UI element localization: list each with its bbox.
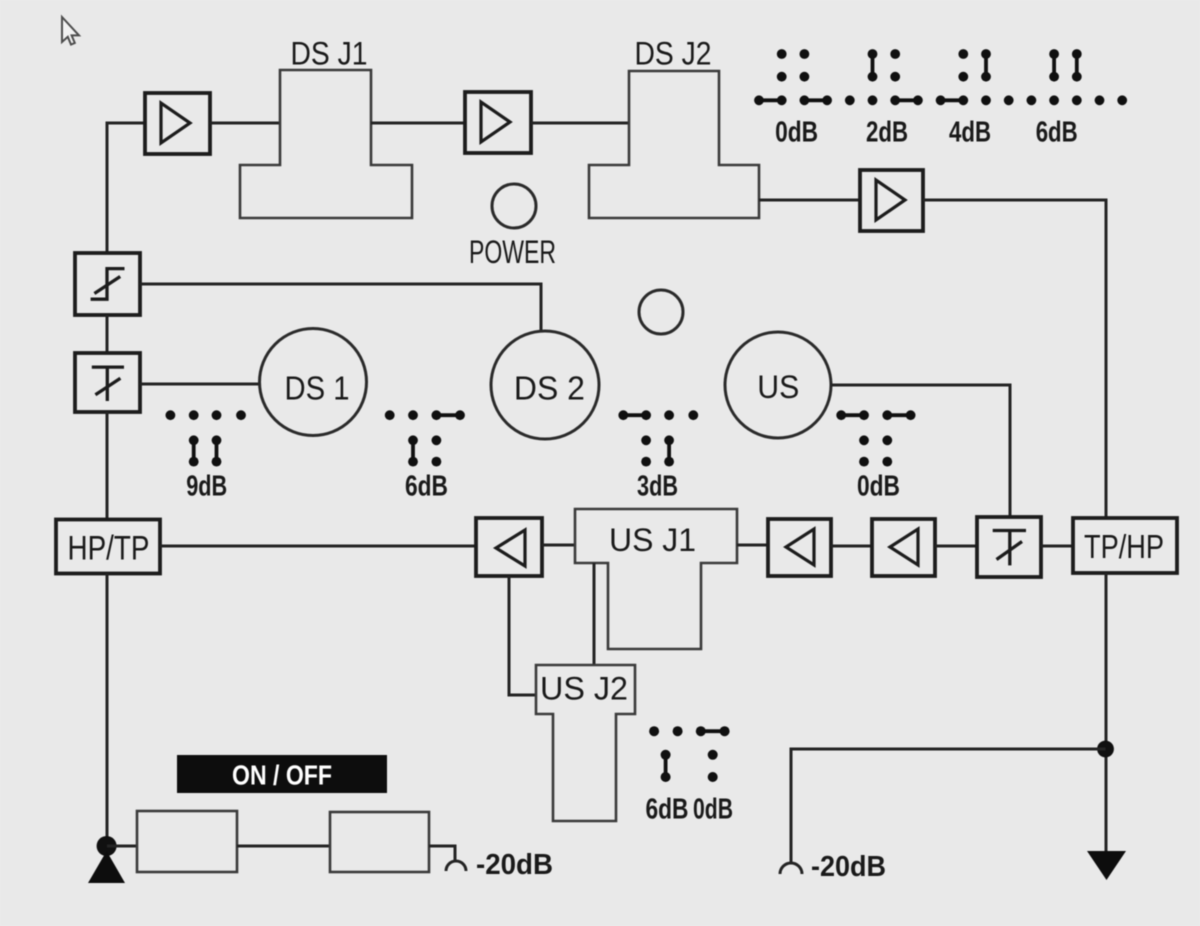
connector DS J2 [589, 71, 759, 218]
amplifier A1 [145, 93, 210, 154]
wire US pot to EQ4 [831, 385, 1010, 517]
svg-text:HP/TP: HP/TP [68, 530, 150, 568]
jumper group 6dB pins [1049, 49, 1082, 82]
wire A2 to DS J2 [531, 122, 629, 125]
svg-text:0dB: 0dB [857, 471, 900, 503]
input port arrow [88, 851, 125, 883]
amplifier A4 [476, 518, 542, 576]
jumper links 9dB [194, 440, 217, 461]
wire EQ1 to DS2 pot [140, 284, 541, 331]
screw hole [639, 290, 683, 334]
switch TP/HP [1073, 518, 1177, 573]
wire US J1 down to US J2 [593, 563, 596, 665]
wire A6 to EQ4 [935, 545, 977, 548]
jumper group 3dB pins [618, 410, 698, 466]
svg-text:4dB: 4dB [949, 117, 991, 149]
amplifier A6 [872, 519, 935, 576]
switch HP/TP [56, 520, 160, 574]
wire A3 to right rail [923, 200, 1106, 518]
svg-text:6dB: 6dB [646, 794, 689, 826]
wire F2 to test point TP1 [429, 846, 455, 861]
test point TP2 [780, 863, 802, 874]
svg-text:DS J1: DS J1 [291, 36, 368, 72]
wire F1 to F2 [237, 845, 330, 848]
jumper group 6dB mid pins [385, 410, 465, 466]
jumper links 0dB [759, 98, 827, 102]
jumper group 2dB pins [868, 49, 901, 82]
jumper links 6dB mid [413, 415, 460, 461]
svg-text:US: US [757, 369, 799, 405]
wire DS J2 to amp A3 [759, 199, 860, 202]
svg-text:6dB: 6dB [405, 471, 448, 503]
jumper links 0dB mid [841, 413, 910, 417]
svg-text:US J2: US J2 [540, 671, 628, 707]
wire US J1 to amp A5 [737, 544, 768, 547]
wire A1 to DS J1 [210, 122, 280, 125]
jumper links 6dB [1054, 54, 1077, 77]
node input junction [97, 836, 117, 856]
connector US J1 [575, 509, 737, 649]
potentiometer US [725, 332, 831, 438]
wire EQ2 to DS1 pot [140, 383, 260, 386]
svg-text:-20dB: -20dB [476, 849, 553, 881]
equalizer EQ1 [75, 253, 140, 315]
svg-text:9dB: 9dB [186, 471, 227, 503]
svg-text:US J1: US J1 [609, 522, 696, 558]
svg-text:ON / OFF: ON / OFF [232, 760, 332, 791]
jumper field top-right: bottom pin row [754, 95, 1127, 105]
jumper group 0dB mid pins [836, 410, 915, 466]
wire HP/TP to amp A4 [160, 545, 476, 548]
svg-text:POWER: POWER [469, 234, 556, 270]
equalizer EQ4 [977, 517, 1041, 577]
wire A5 to A6 [831, 545, 872, 548]
jumper group 4dB pins [958, 49, 991, 82]
fuse F2 [330, 812, 429, 872]
svg-text:0dB: 0dB [693, 794, 733, 826]
svg-text:2dB: 2dB [866, 117, 908, 149]
LED POWER [492, 184, 536, 228]
test point TP1 [446, 861, 466, 871]
jumper group US J2 pins [649, 726, 730, 782]
connector US J2 [536, 665, 635, 821]
potentiometer DS 2 [491, 331, 599, 439]
wire node to test point TP2 [791, 749, 1106, 863]
wire EQ1 to EQ2 [106, 315, 109, 353]
svg-text:6dB: 6dB [1036, 117, 1078, 149]
wire A4 down to US J2 [509, 576, 536, 695]
wire input corner to amp A1 [107, 123, 145, 253]
equalizer EQ2 [75, 353, 140, 412]
amplifier A5 [768, 519, 831, 576]
svg-text:0dB: 0dB [775, 117, 818, 149]
label ON / OFF plate [177, 755, 387, 793]
connector DS J1 [240, 70, 412, 218]
svg-text:3dB: 3dB [637, 471, 678, 503]
svg-text:DS 1: DS 1 [285, 370, 350, 407]
jumper links 2dB [873, 54, 918, 100]
wire EQ4 to TP/HP [1041, 545, 1073, 548]
output port arrow [1087, 851, 1126, 880]
jumper group 0dB pins [777, 49, 810, 82]
wire node to fuse F1 [107, 845, 137, 848]
jumper links US J2 [666, 731, 725, 777]
jumper group 9dB pins [166, 410, 246, 466]
fuse F1 [137, 811, 237, 872]
svg-text:TP/HP: TP/HP [1084, 528, 1164, 565]
jumper links 4dB [941, 54, 986, 100]
wire A4 to US J1 [542, 544, 575, 547]
wire TP/HP down to output port [1105, 573, 1108, 852]
svg-text:-20dB: -20dB [811, 851, 886, 883]
wire HP/TP down to input node [106, 574, 109, 847]
svg-text:DS J2: DS J2 [635, 36, 712, 72]
potentiometer DS 1 [260, 329, 367, 436]
node output junction [1097, 741, 1114, 758]
amplifier A3 [860, 170, 923, 231]
jumper links 3dB [623, 415, 669, 461]
wire EQ2 to HP/TP [106, 412, 109, 520]
wire DS J1 to amp A2 [371, 122, 465, 125]
amplifier A2 [465, 92, 531, 153]
mouse cursor [62, 17, 79, 45]
svg-text:DS 2: DS 2 [514, 369, 585, 406]
